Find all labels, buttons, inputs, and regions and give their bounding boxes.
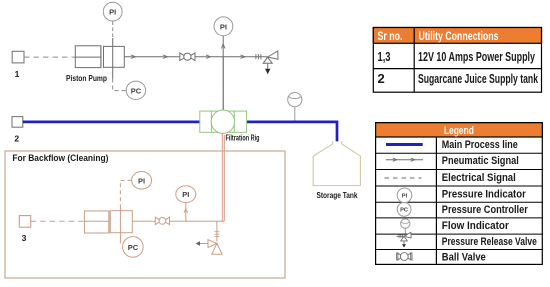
legend symbol electrical signal — [385, 177, 422, 179]
svg-text:Filtration Rig: Filtration Rig — [226, 134, 260, 143]
pressure controller PC1 — [126, 81, 145, 99]
legend symbol pressure release valve — [396, 232, 411, 247]
flow indicator FI1 — [288, 93, 302, 121]
electrical signal wire from 1 to pump — [24, 56, 75, 58]
wire riser junction to PI2 — [221, 36, 225, 57]
pneumatic wire valve to junction — [195, 55, 223, 59]
svg-text:For Backflow (Cleaning): For Backflow (Cleaning) — [12, 153, 108, 164]
legend symbol pneumatic signal — [386, 158, 423, 161]
legend row lines — [376, 152, 543, 154]
svg-text:Utility Connections: Utility Connections — [419, 31, 499, 43]
svg-text:Sr no.: Sr no. — [378, 31, 403, 43]
pneumatic wire pump to ball valve — [124, 55, 180, 59]
pressure release valve PRV2 — [196, 240, 223, 255]
svg-text:Legend: Legend — [444, 125, 474, 137]
main process line 2 to rig — [23, 121, 200, 124]
svg-text:Pressure Release Valve: Pressure Release Valve — [442, 236, 537, 248]
pressure release valve PRV1 — [263, 51, 278, 74]
backflow ball valve — [155, 217, 169, 224]
svg-text:Storage Tank: Storage Tank — [317, 191, 358, 200]
ball valve V1 — [180, 53, 195, 61]
svg-text:Pressure Indicator: Pressure Indicator — [442, 188, 527, 200]
legend symbol pressure indicator — [397, 188, 412, 203]
table frame — [373, 28, 541, 93]
svg-text:Electrical Signal: Electrical Signal — [442, 172, 516, 184]
pressure indicator PI4 — [176, 186, 196, 203]
piston pump P1 — [75, 46, 124, 68]
wire grey drop junction to filtration rig — [222, 57, 224, 111]
svg-text:3: 3 — [22, 233, 27, 243]
svg-text:PI: PI — [220, 22, 227, 31]
svg-text:PI: PI — [138, 176, 145, 185]
pneumatic wire junction to relief valve — [223, 54, 267, 59]
legend header band — [376, 123, 543, 137]
salmon drop line from rig — [221, 133, 223, 221]
legend symbol flow indicator — [401, 219, 410, 234]
electrical signal wire 3 to backflow pump — [31, 220, 85, 222]
legend symbol main process line — [386, 143, 423, 146]
svg-text:1: 1 — [15, 69, 20, 79]
pressure indicator PI2 — [214, 17, 233, 36]
utility square 1 — [12, 51, 24, 79]
header band — [373, 28, 541, 44]
pressure controller PC2 — [123, 237, 144, 258]
storage tank — [313, 141, 360, 185]
svg-text:Flow Indicator: Flow Indicator — [442, 220, 510, 232]
wire pump stem vertical (through right block) — [112, 22, 114, 79]
svg-text:1,3: 1,3 — [378, 49, 391, 64]
svg-text:Ball Valve: Ball Valve — [442, 252, 486, 264]
pressure indicator PI3 — [132, 172, 152, 190]
filtration rig — [200, 110, 247, 133]
backflow enclosure box — [5, 151, 285, 278]
svg-text:Pneumatic Signal: Pneumatic Signal — [442, 155, 519, 167]
pressure indicator PI1 — [103, 2, 122, 21]
svg-text:2: 2 — [378, 71, 385, 86]
utility square 3 — [19, 216, 30, 243]
svg-text:Piston Pump: Piston Pump — [66, 74, 107, 83]
svg-text:Pressure Controller: Pressure Controller — [442, 204, 529, 216]
svg-text:PI: PI — [402, 194, 408, 200]
wire riser pump to PI3 (dashed) — [120, 180, 131, 243]
svg-text:12V 10 Amps Power Supply: 12V 10 Amps Power Supply — [418, 49, 536, 64]
backflow riser to filtration rig — [223, 135, 225, 221]
row divider — [373, 68, 541, 70]
column divider — [413, 28, 415, 93]
main process line rig to storage tank — [247, 122, 337, 141]
svg-text:PI: PI — [182, 190, 189, 199]
utility square 2 — [12, 117, 23, 144]
svg-text:Sugarcane Juice Supply tank: Sugarcane Juice Supply tank — [418, 71, 539, 86]
backflow wire pump to valve — [132, 220, 155, 222]
electrical signal wire pump to PC — [113, 79, 127, 91]
backflow piston pump — [84, 211, 132, 233]
svg-text:2: 2 — [14, 134, 19, 144]
wire drop to PRV2 with spring — [214, 221, 219, 241]
svg-text:PC: PC — [400, 208, 409, 214]
legend frame — [376, 123, 543, 265]
svg-text:Main Process line: Main Process line — [442, 139, 518, 151]
wire riser to PI4 — [184, 203, 188, 222]
svg-text:PI: PI — [109, 8, 116, 17]
backflow wire valve to corner — [170, 220, 225, 222]
svg-text:PC: PC — [131, 86, 142, 95]
legend symbol pressure controller — [397, 203, 411, 217]
legend column divider — [435, 137, 437, 264]
legend symbol ball valve — [397, 253, 412, 261]
svg-text:PC: PC — [128, 243, 139, 252]
